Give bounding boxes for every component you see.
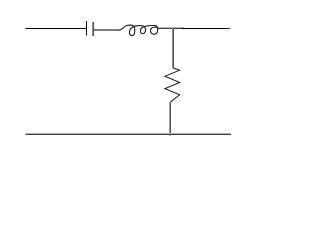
inductor L1 bbox=[120, 25, 158, 35]
wire top-right bbox=[181, 28, 229, 29]
wire capacitor to inductor bbox=[94, 29, 120, 31]
node junction vertical wire bbox=[172, 28, 173, 68]
capacitor C1 left plate bbox=[86, 21, 87, 36]
capacitor C1 right plate bbox=[92, 22, 93, 36]
wire inductor to junction (light top row) bbox=[158, 27, 185, 28]
wire resistor to bottom rail bbox=[169, 102, 170, 135]
wire inductor to junction (dark row) bbox=[158, 28, 182, 29]
wire bottom rail bbox=[26, 133, 232, 134]
resistor R1 bbox=[165, 68, 180, 102]
wire top-left bbox=[26, 28, 86, 29]
